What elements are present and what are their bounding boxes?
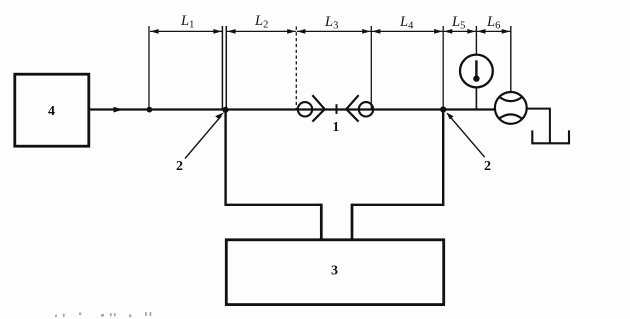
dimension line L1 <box>150 29 222 34</box>
box 3 (bottom unit) <box>226 240 443 305</box>
tank (open container) <box>532 130 569 143</box>
svg-text:L5: L5 <box>451 14 465 32</box>
thermometer stem <box>475 60 477 76</box>
svg-text:L4: L4 <box>399 14 414 32</box>
extension line at node 2 right <box>442 26 444 110</box>
box 4 (source unit) <box>15 74 89 146</box>
dimension line L4 <box>372 29 443 34</box>
svg-text:L3: L3 <box>324 14 338 32</box>
dimension line L2 <box>227 29 296 34</box>
coupling 1 right chevron <box>346 95 358 121</box>
node 2 left dot <box>222 107 228 113</box>
coupling mating-plane dash <box>336 104 338 114</box>
svg-text:2: 2 <box>176 159 183 174</box>
thermometer bulb <box>473 75 479 81</box>
svg-text:L6: L6 <box>486 14 500 32</box>
dimension line L5 <box>444 29 476 34</box>
extension double line at node 2 left <box>222 26 226 110</box>
extension line to thermometer <box>475 26 477 55</box>
flow meter upper arc <box>500 97 522 101</box>
flow meter lower arc <box>500 114 522 118</box>
manifold left run <box>225 204 323 206</box>
main pipe <box>89 108 495 110</box>
dashed extension line at L2/L3 boundary <box>295 27 297 109</box>
svg-text:2: 2 <box>484 159 491 174</box>
extension line at L3/L4 boundary <box>370 26 372 110</box>
thermometer lower connection <box>475 87 477 109</box>
junction dot at L1 start <box>147 107 153 113</box>
extension line to flow meter <box>510 26 512 92</box>
manifold right run <box>351 204 444 206</box>
neck right wall <box>351 204 354 240</box>
svg-text:4: 4 <box>48 104 55 119</box>
downcomer right <box>442 110 444 206</box>
svg-text:L1: L1 <box>180 13 194 31</box>
node 2 right dot <box>440 106 446 112</box>
svg-text:1: 1 <box>333 119 340 134</box>
coupling 1 right circle <box>359 102 373 116</box>
dimension line L6 <box>477 29 510 34</box>
faint cropped caption fragments at bottom edge <box>55 312 151 317</box>
flow meter circle <box>495 92 527 124</box>
extension line at L1 left (to junction dot) <box>148 26 150 110</box>
downcomer left <box>224 110 226 206</box>
outlet pipe to tank <box>527 109 550 143</box>
coupling 1 left chevron <box>312 95 324 121</box>
neck left wall <box>320 204 323 240</box>
svg-text:3: 3 <box>331 264 338 279</box>
leader arrow to node 2 left <box>185 112 224 158</box>
flow direction arrowhead <box>114 107 124 113</box>
thermometer circle <box>460 55 493 88</box>
dimension line L3 <box>297 29 371 34</box>
coupling 1 left circle <box>298 102 312 116</box>
svg-text:L2: L2 <box>254 13 268 31</box>
leader arrow to node 2 right <box>446 112 484 157</box>
